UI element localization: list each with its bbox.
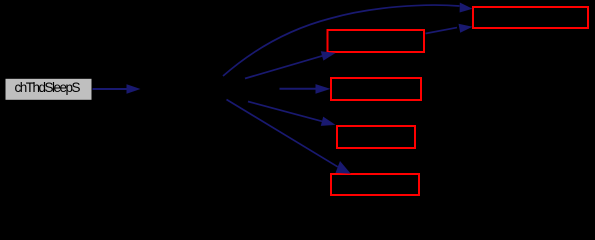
node box4 (red box) [337, 126, 415, 148]
edge middle node to box4 [248, 102, 336, 126]
node box5 (bottom red box) [331, 174, 419, 195]
edge middle node to box1 (long arc) [223, 3, 473, 77]
edge box2 to box1 [426, 24, 473, 34]
node box3 (red box) [331, 78, 421, 100]
svg-text:chThdSleepS: chThdSleepS [15, 80, 81, 95]
edge chThdSleepS to middle node [93, 84, 141, 94]
edge middle node to box3 [280, 84, 331, 94]
edge middle node to box5 [227, 100, 351, 174]
node box1 (top-right red box) [473, 7, 588, 28]
edge middle node to box2 [245, 51, 336, 78]
node box2 (red box) [328, 30, 425, 52]
node chThdSleepS (grey box) [6, 79, 92, 100]
